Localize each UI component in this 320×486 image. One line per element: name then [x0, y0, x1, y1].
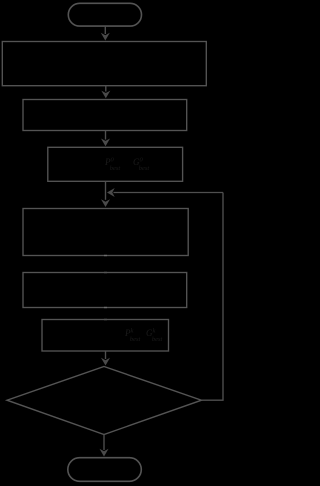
node: anchor tick on box4 bottom	[104, 255, 107, 257]
wire: decision Yes to end	[103, 435, 105, 451]
arrowhead into end	[100, 449, 109, 457]
arrowhead into box2	[101, 91, 110, 99]
wire: decision No loop right and up	[202, 193, 224, 401]
end terminator (End)	[68, 458, 142, 482]
arrowhead into box4	[101, 199, 110, 207]
process box1 (initialize population)	[2, 42, 206, 86]
process box5 (evaluate fitness again)	[23, 273, 187, 308]
wire: box2 to box3	[105, 131, 107, 140]
wire: start to box1	[104, 26, 106, 34]
decision diamond (termination criterion?)	[7, 367, 202, 435]
arrowhead into decision	[101, 358, 110, 366]
process box2 (evaluate fitness)	[23, 100, 187, 131]
process box6 (update Pbest and Gbest)	[42, 320, 169, 352]
arrowhead into box3	[101, 139, 110, 147]
node: anchor tick on box5 top	[104, 272, 107, 274]
wire: box6 to decision	[105, 351, 107, 359]
node: anchor tick on box6 top	[104, 319, 107, 321]
arrowhead loop into main line	[107, 188, 115, 197]
process box3 (set Pbest0 and Gbest0)	[48, 147, 183, 181]
node: anchor tick on box5 bottom	[104, 307, 107, 309]
wire: box1 to box2	[105, 86, 107, 92]
arrowhead into box1	[101, 33, 110, 41]
wire: loop return horizontal	[114, 192, 224, 194]
start terminator (Start)	[68, 3, 141, 26]
process box4 (update velocity and position)	[23, 209, 188, 256]
wire: box3 to box4	[105, 181, 107, 200]
